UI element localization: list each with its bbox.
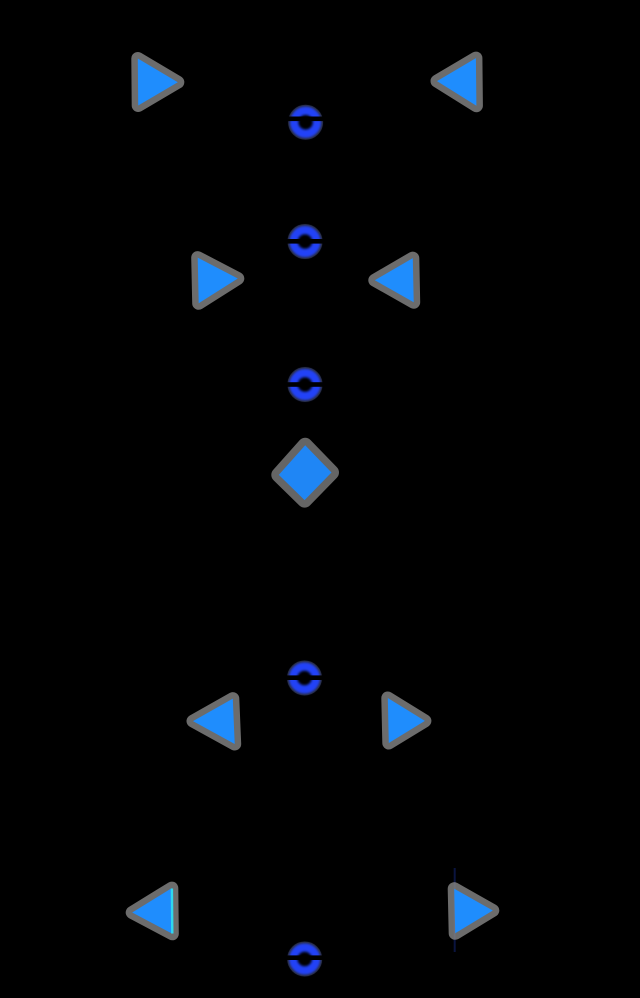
sync icon S5	[281, 944, 327, 974]
arrowhead A7 (left-pointing, row 4 left, cyan trailing edge)	[132, 888, 172, 934]
sync icon S1	[283, 107, 328, 137]
wire vertical (faint, through A8)	[454, 868, 456, 952]
sync icon S4	[281, 663, 327, 693]
arrowhead A3 (right-pointing, row 2 left)	[198, 258, 238, 304]
arrowhead A8 (right-pointing, row 4 right)	[454, 889, 493, 934]
arrowhead A2 (left-pointing, top-right)	[437, 58, 476, 106]
sync icon S3	[282, 370, 328, 400]
arrowhead A5 (left-pointing, row 3 left)	[193, 699, 235, 744]
sync icon S2	[282, 227, 328, 257]
arrowhead A4 (left-pointing, row 2 right)	[375, 258, 414, 302]
decision diamond D1	[279, 445, 332, 500]
arrowhead A6 (right-pointing, row 3 right)	[388, 698, 425, 743]
arrowhead A1 (right-pointing, top-left)	[138, 59, 178, 106]
